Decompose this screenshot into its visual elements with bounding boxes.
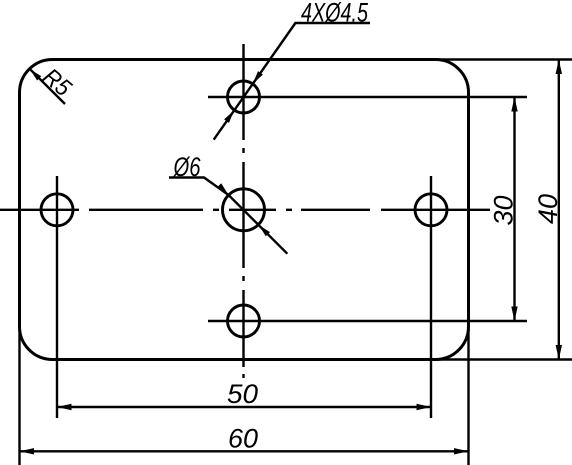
svg-text:4XØ4.5: 4XØ4.5 [301, 0, 369, 28]
svg-text:40: 40 [533, 194, 563, 224]
svg-text:30: 30 [488, 196, 518, 226]
svg-text:Ø6: Ø6 [173, 152, 201, 182]
svg-text:60: 60 [228, 424, 258, 454]
svg-text:50: 50 [227, 379, 258, 409]
